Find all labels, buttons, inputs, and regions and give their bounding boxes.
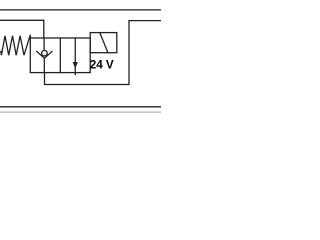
svg-text:24 V: 24 V [90,58,114,71]
